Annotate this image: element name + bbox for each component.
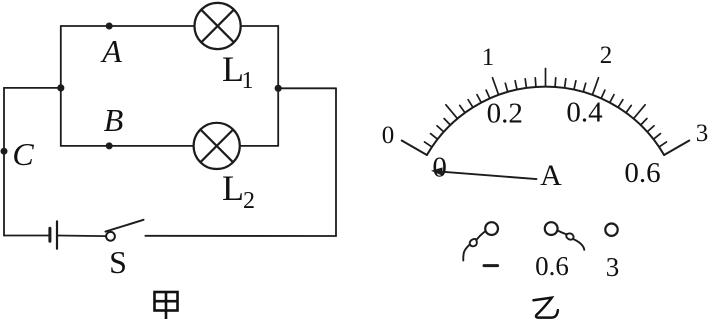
- battery positive plate (long): [56, 221, 58, 248]
- meter arc: [427, 87, 664, 155]
- wire outer-right vertical: [335, 88, 337, 236]
- wire right branch vertical: [277, 26, 279, 146]
- meter needle arrowhead: [431, 167, 443, 175]
- svg-text:3: 3: [696, 120, 709, 147]
- wire top-left segment with node A: [61, 25, 195, 27]
- svg-text:C: C: [12, 136, 34, 172]
- lamp L2: [194, 123, 240, 169]
- svg-text:S: S: [109, 244, 127, 280]
- svg-text:0.4: 0.4: [566, 97, 603, 129]
- svg-text:0.2: 0.2: [487, 98, 523, 130]
- svg-text:0.6: 0.6: [624, 157, 660, 189]
- meter 0-end stroke: [402, 141, 427, 156]
- node C: [1, 148, 8, 155]
- node A: [106, 23, 113, 30]
- junction right: [275, 85, 282, 92]
- label L2: [222, 168, 255, 214]
- terminal 0.6 wire curl: [558, 231, 585, 250]
- wire battery to switch: [57, 235, 106, 238]
- svg-text:A: A: [100, 33, 122, 69]
- label yi (caption of right figure): [534, 298, 558, 318]
- meter tick marks: [425, 69, 667, 147]
- svg-text:0: 0: [432, 152, 447, 184]
- wire left branch vertical: [60, 26, 62, 146]
- wire outer-left vertical: [3, 88, 5, 236]
- svg-text:1: 1: [242, 68, 254, 94]
- svg-text:0: 0: [382, 122, 395, 149]
- svg-text:0.6: 0.6: [535, 251, 569, 281]
- label jia (caption of left figure): [155, 292, 178, 319]
- terminal minus: [485, 222, 498, 235]
- svg-text:2: 2: [600, 42, 613, 69]
- svg-text:3: 3: [606, 252, 620, 282]
- svg-text:1: 1: [482, 44, 495, 71]
- wire junction-right to outer-right: [278, 87, 336, 89]
- terminal minus wire curl: [463, 231, 485, 261]
- junction left: [57, 84, 64, 91]
- switch S lever: [106, 220, 144, 232]
- svg-text:A: A: [540, 159, 562, 192]
- wire B-row left segment with node B: [61, 145, 194, 147]
- wire bottom-right segment: [145, 235, 336, 237]
- wire bottom-left segment: [4, 235, 50, 237]
- label L1: [222, 49, 254, 94]
- switch S pivot: [106, 232, 115, 241]
- meter 3-end stroke: [664, 141, 689, 156]
- wire junction-left to outer-left: [4, 87, 61, 89]
- meter needle: [437, 171, 537, 179]
- lamp L1: [195, 3, 241, 49]
- battery negative plate (short): [48, 228, 51, 241]
- svg-text:L: L: [222, 168, 244, 208]
- svg-text:2: 2: [243, 188, 255, 214]
- node B: [106, 142, 113, 149]
- terminal 0.6: [545, 222, 558, 235]
- wire top-right segment: [241, 25, 279, 27]
- wire B-row right segment: [240, 145, 278, 147]
- label minus: [484, 264, 498, 267]
- svg-text:B: B: [104, 102, 124, 138]
- terminal 3: [605, 224, 617, 236]
